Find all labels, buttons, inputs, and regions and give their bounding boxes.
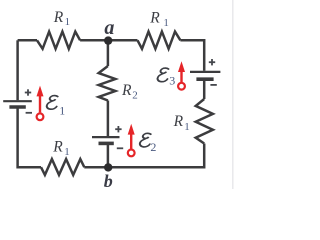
label R2 middle [121,82,138,102]
label R1 top-left [53,9,70,28]
node a [104,36,112,44]
label R1 top-right [149,10,169,30]
emf arrow E2 [128,124,135,157]
svg-text:1: 1 [163,17,169,29]
wire node a down to R2 [107,41,110,66]
resistor R1 top-right zigzag [138,32,181,49]
svg-text:R: R [173,113,184,130]
battery E1 polarity signs [25,89,32,113]
svg-text:1: 1 [184,121,190,133]
emf arrow E1 [37,86,44,121]
wire battery E1 to top-left corner [16,40,19,100]
wire R2 to battery E2 [107,101,110,137]
resistor R1 top-left zigzag [37,32,80,49]
svg-text:R: R [53,9,64,26]
emf arrow E3 [178,61,185,89]
svg-text:R: R [121,82,132,99]
svg-text:R: R [149,10,160,27]
svg-text:1: 1 [64,146,70,158]
wire zigzag to node a [80,39,108,42]
node b [104,163,112,171]
svg-text:3: 3 [169,74,175,88]
label emf E1 script [46,96,65,118]
svg-text:2: 2 [132,89,138,101]
battery E3 plates [190,72,220,79]
wire bottom-left corner [18,107,41,167]
svg-text:2: 2 [150,140,156,154]
wire battery E2 to node b [107,145,110,168]
wire right resistor to bottom-right corner and along bottom to node b [108,144,204,168]
svg-text:a: a [104,17,114,39]
resistor R1 right vertical zigzag [196,99,213,144]
battery E1 plates [3,101,32,107]
battery E2 plates [92,137,120,143]
label R1 bottom-left [52,138,70,158]
wire node a to top-right resistor [108,39,137,42]
svg-text:1: 1 [59,104,65,118]
label emf E3 script [157,68,175,87]
wire top-right corner down to battery E3 [180,40,204,71]
wire node b to bottom-left resistor [84,166,108,169]
wire top-left segment [18,39,37,42]
svg-text:R: R [52,138,63,155]
battery E3 polarity signs [209,59,217,85]
svg-text:b: b [104,171,113,189]
label R1 right [173,113,190,133]
svg-text:1: 1 [65,16,71,28]
label emf E2 script [139,133,156,154]
resistor R2 vertical zigzag [99,66,116,101]
wire battery E3 to right resistor [203,80,206,99]
resistor R1 bottom-left zigzag [41,159,84,175]
battery E2 polarity signs [115,126,123,148]
